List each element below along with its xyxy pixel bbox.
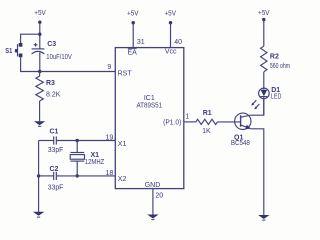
- power +5V (R2 rail): [258, 10, 270, 21]
- wire R2 to LED: [263, 72, 265, 90]
- wire R1 to Q1 base: [218, 121, 241, 123]
- power +5V (left, S1/C3 rail): [34, 10, 46, 24]
- svg-text:10uF/10V: 10uF/10V: [46, 54, 72, 61]
- wire +5V to R2: [263, 20, 265, 47]
- svg-text:33pF: 33pF: [48, 184, 64, 191]
- svg-text:S1: S1: [5, 48, 12, 55]
- LED D1: [251, 87, 281, 110]
- resistor R1: [196, 110, 218, 135]
- svg-text:EA: EA: [128, 49, 138, 56]
- svg-text:20: 20: [155, 192, 163, 199]
- wire R3 to ground: [39, 101, 41, 121]
- ground (IC pin 20): [147, 215, 158, 220]
- wire RST node to IC pin 9: [40, 71, 116, 73]
- capacitor C1: [48, 129, 64, 155]
- junction node left rail / C2 wire: [37, 174, 40, 177]
- svg-text:RST: RST: [118, 71, 133, 78]
- svg-text:33pF: 33pF: [48, 147, 64, 154]
- junction node crystal bottom / C2 wire: [76, 174, 79, 177]
- svg-text:18: 18: [106, 170, 114, 177]
- svg-text:1: 1: [185, 114, 189, 121]
- svg-text:9: 9: [107, 64, 111, 71]
- svg-text:19: 19: [106, 134, 114, 141]
- svg-text:C2: C2: [50, 166, 59, 173]
- capacitor C2: [48, 166, 64, 191]
- transistor Q1 BC548: [231, 113, 251, 147]
- wire X2 net (left rail to IC pin 18, through C2): [39, 175, 54, 177]
- svg-text:R1: R1: [203, 110, 212, 117]
- junction node S1-top / +5V rail: [38, 33, 41, 36]
- svg-text:LED: LED: [271, 94, 282, 101]
- capacitor C3: [32, 41, 72, 61]
- svg-text:+5V: +5V: [164, 10, 176, 17]
- svg-text:X2: X2: [118, 176, 127, 183]
- IC IC1 AT89S51 body: [115, 48, 184, 189]
- wire +5V to EA: [132, 23, 134, 48]
- wire Q1 emitter to ground: [251, 129, 264, 215]
- svg-text:R3: R3: [46, 80, 55, 87]
- wire GND pin 20 down: [152, 189, 154, 215]
- IC1 reference labels: [136, 95, 162, 109]
- svg-text:31: 31: [137, 39, 145, 46]
- svg-text:560 ohm: 560 ohm: [270, 63, 290, 70]
- svg-text:X1: X1: [118, 141, 127, 148]
- wire C3 bottom to RST node: [39, 52, 41, 71]
- crystal X1 12MHZ: [70, 141, 105, 176]
- resistor R3: [36, 72, 61, 102]
- wire +5V rail down to C3: [39, 22, 41, 49]
- svg-text:Vcc: Vcc: [165, 48, 177, 55]
- ground (Q1 emitter): [258, 215, 269, 220]
- svg-text:GND: GND: [145, 182, 161, 189]
- junction node crystal top / C1 wire: [76, 139, 79, 142]
- ground (crystal rail): [33, 212, 44, 217]
- svg-text:40: 40: [174, 39, 182, 46]
- wire left crystal rail down to ground: [38, 141, 40, 212]
- wire +5V to Vcc: [170, 23, 172, 48]
- power +5V (EA pin 31): [127, 10, 139, 24]
- svg-text:+5V: +5V: [258, 10, 270, 17]
- svg-text:AT89S51: AT89S51: [136, 103, 162, 110]
- svg-text:+5V: +5V: [127, 10, 139, 17]
- svg-text:X1: X1: [91, 152, 100, 159]
- pin name EA (with overbar): [128, 49, 138, 57]
- wire S1 bottom to RST node: [21, 57, 40, 71]
- svg-text:BC548: BC548: [231, 140, 250, 147]
- ground (below R3): [34, 121, 45, 126]
- resistor R2: [261, 46, 291, 72]
- junction node RST (C3/S1/R3/RST wire): [38, 70, 41, 73]
- svg-text:+5V: +5V: [34, 10, 46, 17]
- svg-text:R2: R2: [270, 54, 279, 61]
- svg-text:IC1: IC1: [144, 95, 155, 102]
- wire IC pin 1 (P1.0) to R1: [184, 121, 196, 123]
- svg-text:C1: C1: [50, 129, 59, 136]
- svg-text:12MHZ: 12MHZ: [85, 159, 105, 166]
- svg-text:8.2K: 8.2K: [46, 91, 61, 98]
- power +5V (Vcc pin 40): [164, 10, 176, 24]
- wire Q1 collector to LED: [251, 98, 264, 115]
- wire junction to S1 top terminal: [21, 34, 40, 43]
- wire X1 net (left rail to IC pin 19, through C1): [39, 140, 54, 142]
- svg-text:C3: C3: [47, 41, 56, 48]
- switch S1 (push button): [5, 43, 22, 57]
- svg-text:1K: 1K: [202, 128, 211, 135]
- wire LED cathode to collector corner: [263, 97, 265, 116]
- svg-text:(P1.0): (P1.0): [163, 120, 181, 127]
